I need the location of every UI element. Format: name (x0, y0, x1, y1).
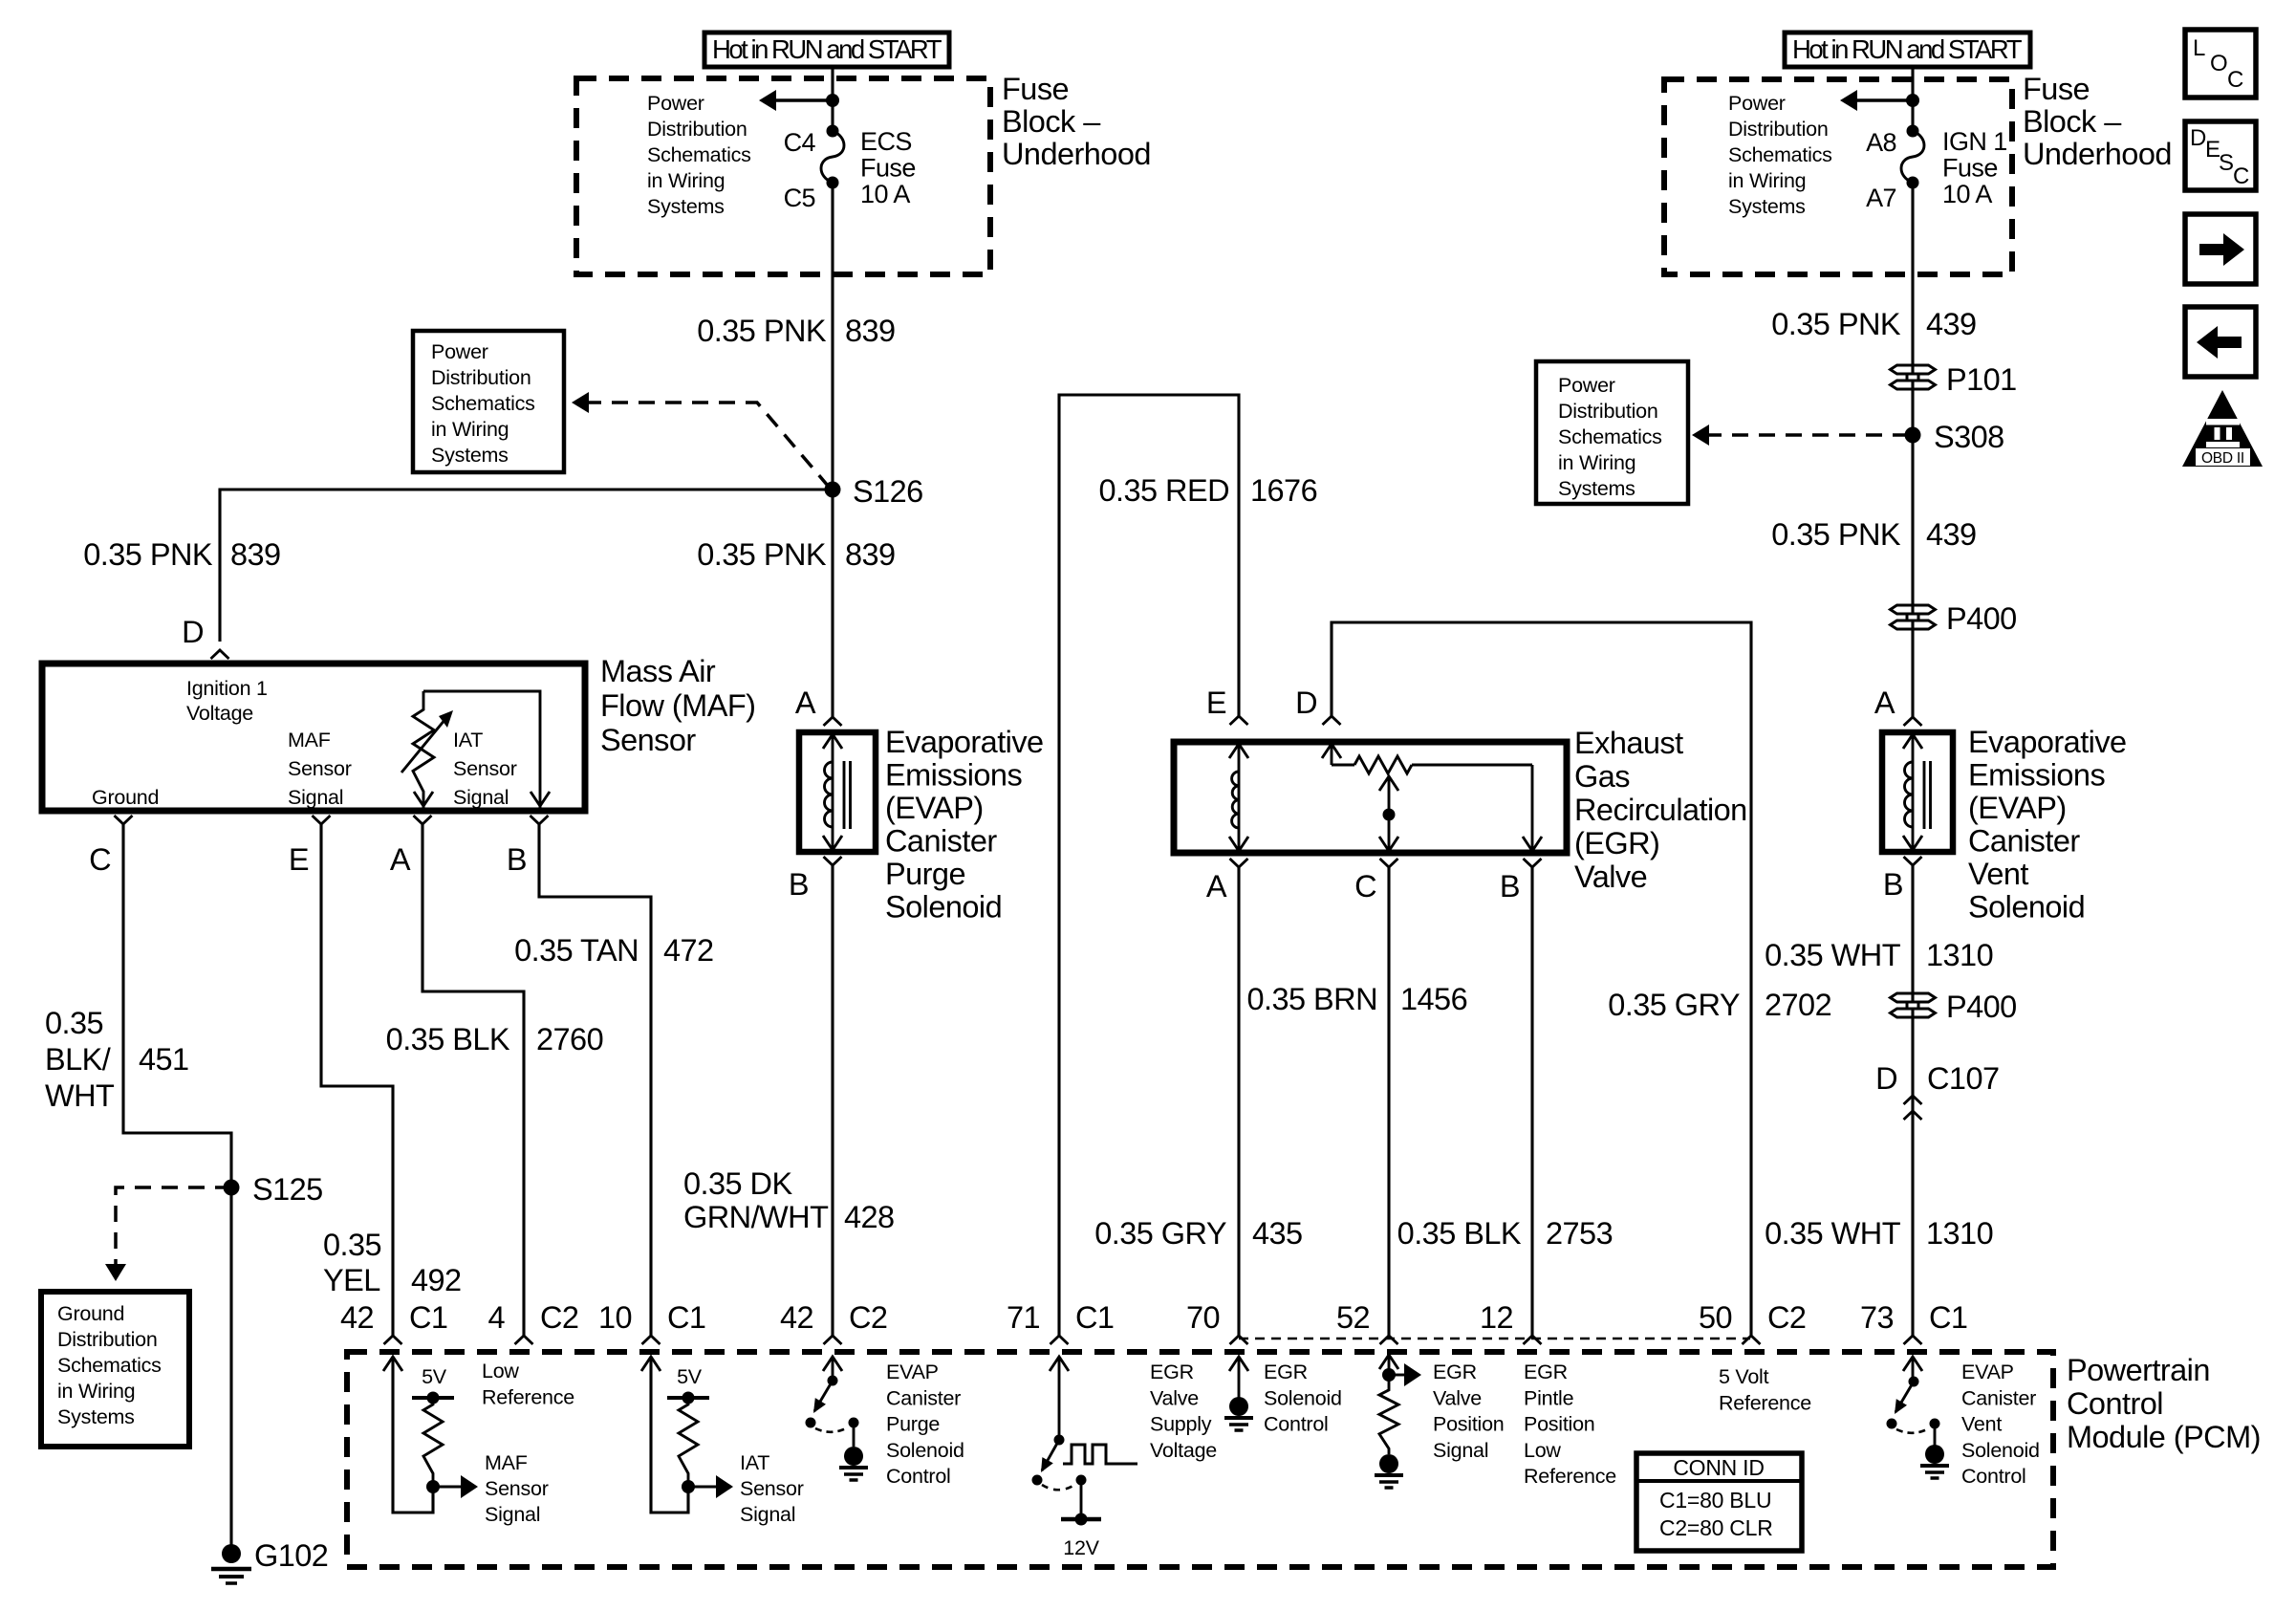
PCM pin 10 C1 (642, 1336, 661, 1344)
svg-text:Schematics: Schematics (647, 143, 751, 166)
MAF pin A connector (414, 816, 432, 824)
svg-text:5 Volt: 5 Volt (1719, 1365, 1769, 1388)
svg-text:Schematics: Schematics (57, 1354, 162, 1377)
EVAP vent solenoid pin B connector (1904, 857, 1922, 865)
svg-text:C1: C1 (1075, 1300, 1114, 1335)
svg-text:1310: 1310 (1926, 938, 1993, 972)
svg-text:Recirculation: Recirculation (1574, 793, 1747, 827)
wire: 0.35 GRY 435 from EGR pin A to PCM pin 70 (1237, 867, 1240, 1336)
PCM pin 42 C2 (824, 1336, 842, 1344)
svg-text:Power: Power (647, 92, 704, 115)
svg-text:in Wiring: in Wiring (1558, 451, 1635, 474)
svg-text:492: 492 (411, 1263, 462, 1297)
PCM pin 50 C2 (1743, 1336, 1761, 1344)
in-line connector D C107 (1904, 1096, 1922, 1104)
PCM square wave symbol (1063, 1445, 1137, 1464)
svg-text:Distribution: Distribution (1728, 118, 1829, 141)
wire: 0.35 TAN 472 from MAF pin B to PCM pin 10 C1 (539, 824, 651, 1336)
svg-text:2760: 2760 (536, 1022, 603, 1056)
svg-text:WHT: WHT (45, 1078, 115, 1113)
svg-text:Control: Control (886, 1465, 951, 1488)
svg-text:73: 73 (1860, 1300, 1894, 1335)
PCM connector grouping dashed line (1239, 1338, 1750, 1340)
svg-text:12: 12 (1480, 1300, 1513, 1335)
EGR pin D connector (1323, 716, 1341, 725)
svg-text:E: E (1206, 686, 1226, 720)
svg-text:Schematics: Schematics (1558, 425, 1662, 448)
svg-text:451: 451 (139, 1042, 189, 1077)
svg-text:439: 439 (1926, 517, 1977, 552)
svg-text:C2=80 CLR: C2=80 CLR (1659, 1515, 1773, 1540)
PCM pin 70 (1230, 1336, 1248, 1344)
svg-text:0.35 BLK: 0.35 BLK (386, 1022, 510, 1056)
icon: forward arrow box (2185, 214, 2256, 284)
Evaporative Emissions (EVAP) Canister Purge Solenoid box (799, 732, 876, 852)
svg-text:Underhood: Underhood (1002, 137, 1151, 171)
svg-text:D: D (1295, 686, 1317, 720)
svg-text:BLK/: BLK/ (45, 1042, 112, 1077)
svg-text:Supply: Supply (1150, 1413, 1212, 1436)
svg-text:5V: 5V (677, 1365, 703, 1388)
svg-text:Emissions: Emissions (1968, 758, 2105, 793)
svg-text:A: A (795, 686, 816, 720)
PCM pin 12 (1524, 1336, 1542, 1344)
PCM 12V source (1076, 1475, 1087, 1486)
wire: 0.35 YEL 492 from MAF pin E to PCM pin 42 C1 (321, 824, 393, 1336)
svg-text:428: 428 (844, 1200, 895, 1234)
Exhaust Gas Recirculation (EGR) Valve box (1174, 742, 1567, 853)
svg-text:C: C (1354, 869, 1376, 903)
svg-text:EGR: EGR (1264, 1361, 1308, 1383)
svg-text:Systems: Systems (431, 444, 509, 467)
svg-text:Canister: Canister (1968, 824, 2080, 859)
svg-text:IAT: IAT (740, 1451, 769, 1474)
svg-text:Powertrain: Powertrain (2067, 1353, 2210, 1387)
reference box: Power Distribution Schematics in Wiring Systems (middle left) (413, 331, 564, 472)
svg-text:Solenoid: Solenoid (886, 1439, 964, 1462)
dashed arrow from S125 to ground distribution reference (116, 1187, 231, 1264)
svg-text:0.35: 0.35 (323, 1228, 381, 1262)
svg-text:(EVAP): (EVAP) (885, 791, 984, 825)
in-line connector P400 (lower) (1896, 1003, 1929, 1009)
svg-text:A7: A7 (1866, 184, 1896, 212)
svg-text:1676: 1676 (1250, 473, 1317, 508)
svg-text:2753: 2753 (1546, 1216, 1613, 1251)
svg-text:Signal: Signal (740, 1503, 795, 1526)
svg-text:in Wiring: in Wiring (647, 169, 725, 192)
svg-text:Pintle: Pintle (1524, 1386, 1573, 1409)
PCM pin 52 (1380, 1336, 1398, 1344)
svg-text:Mass Air: Mass Air (600, 654, 716, 688)
svg-text:4: 4 (487, 1300, 505, 1335)
svg-text:Solenoid: Solenoid (885, 890, 1002, 925)
svg-text:Sensor: Sensor (740, 1477, 804, 1500)
wire: 0.35 BLK/WHT 451 from MAF pin C to G102 (123, 824, 231, 1545)
svg-text:5V: 5V (422, 1365, 447, 1388)
svg-text:C1: C1 (1929, 1300, 1967, 1335)
svg-text:Position: Position (1433, 1413, 1505, 1436)
svg-text:472: 472 (663, 933, 714, 968)
svg-text:CONN ID: CONN ID (1673, 1455, 1764, 1480)
svg-text:C2: C2 (540, 1300, 578, 1335)
Powertrain Control Module (PCM) dashed box (347, 1352, 2053, 1567)
svg-text:Valve: Valve (1150, 1386, 1199, 1409)
PCM EGR solenoid control ground (1229, 1357, 1248, 1371)
svg-text:EGR: EGR (1433, 1361, 1477, 1383)
svg-text:C1: C1 (409, 1300, 447, 1335)
svg-text:S: S (2219, 150, 2234, 176)
CONN ID table (1636, 1453, 1802, 1551)
svg-text:YEL: YEL (323, 1263, 380, 1297)
svg-text:0.35 PNK: 0.35 PNK (83, 537, 213, 572)
PCM pin 4 C2 (515, 1336, 533, 1344)
svg-text:IGN 1: IGN 1 (1942, 127, 2007, 156)
svg-text:A8: A8 (1866, 128, 1896, 157)
svg-text:Schematics: Schematics (431, 392, 535, 415)
svg-text:Sensor: Sensor (453, 757, 517, 780)
svg-text:0.35 RED: 0.35 RED (1098, 473, 1229, 508)
label: Hot in RUN and START (right) (1785, 33, 2030, 67)
svg-text:Distribution: Distribution (1558, 400, 1658, 423)
svg-text:0.35 PNK: 0.35 PNK (697, 314, 827, 348)
svg-text:2702: 2702 (1765, 988, 1831, 1022)
svg-text:B: B (1500, 869, 1520, 903)
svg-text:Module (PCM): Module (PCM) (2067, 1420, 2261, 1454)
svg-text:Hot in RUN and START: Hot in RUN and START (712, 34, 942, 64)
svg-text:0.35 PNK: 0.35 PNK (1771, 307, 1901, 341)
svg-text:D: D (2190, 125, 2206, 151)
svg-text:C2: C2 (849, 1300, 887, 1335)
svg-text:Sensor: Sensor (600, 723, 696, 757)
svg-text:10: 10 (598, 1300, 632, 1335)
svg-text:Solenoid: Solenoid (1264, 1386, 1342, 1409)
splice S308 (1905, 427, 1921, 444)
EGR pin C connector (1380, 859, 1398, 867)
svg-text:50: 50 (1699, 1300, 1732, 1335)
svg-text:GRN/WHT: GRN/WHT (683, 1200, 829, 1234)
svg-text:Emissions: Emissions (885, 758, 1022, 793)
EGR solenoid coil (1238, 742, 1241, 853)
svg-text:Gas: Gas (1574, 759, 1630, 794)
wire: 0.35 DK GRN/WHT 428 from purge solenoid to PCM pin 42 C2 (831, 865, 834, 1336)
svg-text:Reference: Reference (1719, 1391, 1811, 1414)
svg-text:Solenoid: Solenoid (1968, 890, 2085, 925)
svg-text:C5: C5 (784, 184, 815, 212)
svg-text:A: A (1874, 686, 1895, 720)
svg-text:EVAP: EVAP (886, 1361, 939, 1383)
svg-text:Distribution: Distribution (431, 366, 531, 389)
EVAP purge solenoid pin B connector (824, 857, 842, 865)
EVAP purge solenoid pin A connector (824, 717, 842, 726)
svg-text:EGR: EGR (1150, 1361, 1194, 1383)
MAF pin E connector (313, 816, 331, 824)
dashed arrow from S308 to power distribution reference (right) (1705, 433, 1908, 437)
svg-text:C: C (2227, 67, 2243, 93)
svg-text:Signal: Signal (453, 786, 509, 809)
icon: DESC box (2185, 121, 2256, 190)
svg-text:Fuse: Fuse (1002, 72, 1069, 106)
PCM EVAP canister vent solenoid control driver (1903, 1357, 1922, 1371)
svg-text:Power: Power (431, 340, 488, 363)
ground G102 (222, 1544, 241, 1563)
svg-text:Low: Low (1524, 1439, 1561, 1462)
svg-text:Solenoid: Solenoid (1961, 1439, 2040, 1462)
svg-text:71: 71 (1007, 1300, 1040, 1335)
fuse block - underhood (right) dashed enclosure (1664, 79, 2012, 274)
svg-text:MAF: MAF (288, 729, 331, 751)
svg-text:0.35 WHT: 0.35 WHT (1765, 1216, 1901, 1251)
svg-text:Signal: Signal (1433, 1439, 1488, 1462)
svg-text:435: 435 (1252, 1216, 1303, 1251)
svg-text:S125: S125 (252, 1172, 323, 1207)
svg-text:IAT: IAT (453, 729, 483, 751)
svg-text:E: E (289, 842, 309, 877)
svg-text:Block –: Block – (2023, 104, 2122, 139)
svg-text:G102: G102 (254, 1538, 328, 1573)
svg-text:Fuse: Fuse (2023, 72, 2090, 106)
svg-text:D: D (182, 615, 204, 649)
MAF pin B connector (531, 816, 549, 824)
svg-text:Power: Power (1728, 92, 1786, 115)
reference box: Power Distribution Schematics in Wiring Systems (middle right) (1536, 361, 1688, 504)
svg-text:Signal: Signal (485, 1503, 540, 1526)
svg-text:10 A: 10 A (1942, 180, 1992, 208)
svg-text:1456: 1456 (1400, 982, 1467, 1016)
svg-text:Hot in RUN and START: Hot in RUN and START (1792, 34, 2023, 64)
svg-text:Low: Low (482, 1360, 519, 1382)
svg-text:Signal: Signal (288, 786, 343, 809)
wire: 0.35 BLK 2760 from MAF pin A to PCM pin 4 C2 (422, 824, 524, 1336)
EGR pin A connector (1230, 859, 1248, 867)
svg-text:42: 42 (340, 1300, 374, 1335)
fuse block - underhood (left) dashed enclosure (576, 78, 990, 274)
svg-text:Systems: Systems (1728, 195, 1806, 218)
svg-text:Position: Position (1524, 1413, 1595, 1436)
svg-text:Systems: Systems (57, 1405, 135, 1428)
svg-text:B: B (789, 867, 809, 902)
svg-text:Ground: Ground (92, 786, 159, 809)
EGR pin B connector (1524, 859, 1542, 867)
svg-text:EVAP: EVAP (1961, 1361, 2014, 1383)
svg-text:Evaporative: Evaporative (885, 725, 1044, 759)
wire: 0.35 RED 1676 from PCM pin 71 C1 to EGR pin E (1059, 395, 1239, 1336)
svg-text:(EGR): (EGR) (1574, 826, 1659, 860)
IAT thermistor inside MAF sensor (423, 691, 540, 808)
svg-text:10 A: 10 A (860, 180, 910, 208)
svg-text:Systems: Systems (647, 195, 725, 218)
svg-text:Canister: Canister (886, 1386, 961, 1409)
svg-text:Evaporative: Evaporative (1968, 725, 2127, 759)
svg-text:0.35 DK: 0.35 DK (683, 1166, 792, 1201)
in-line connector P400 (upper) (1896, 615, 1929, 620)
svg-text:Canister: Canister (1961, 1386, 2036, 1409)
svg-text:Vent: Vent (1968, 857, 2028, 891)
svg-text:S126: S126 (853, 474, 923, 509)
svg-text:839: 839 (230, 537, 281, 572)
EVAP vent solenoid coil (1912, 732, 1915, 852)
svg-text:0.35 TAN: 0.35 TAN (514, 933, 639, 968)
svg-text:C2: C2 (1767, 1300, 1806, 1335)
svg-text:Control: Control (1961, 1465, 2026, 1488)
svg-text:in Wiring: in Wiring (431, 418, 509, 441)
svg-text:Control: Control (2067, 1386, 2163, 1421)
wire: 0.35 PNK 839 branch to MAF sensor pin D (220, 490, 831, 642)
svg-text:0.35 GRY: 0.35 GRY (1608, 988, 1740, 1022)
svg-text:Ignition 1: Ignition 1 (186, 677, 268, 700)
EGR potentiometer wiper (1388, 776, 1391, 853)
wire: 0.35 PNK 439 from IGN 1 fuse to EVAP vent solenoid pin A (1911, 67, 1914, 128)
PCM EGR valve supply voltage driver (1050, 1357, 1069, 1371)
MAF sensor pin D connector (211, 650, 229, 659)
svg-text:12V: 12V (1063, 1536, 1099, 1559)
MAF pin C connector (115, 816, 133, 824)
svg-text:Purge: Purge (885, 857, 965, 891)
svg-text:Fuse: Fuse (860, 154, 916, 183)
svg-text:Sensor: Sensor (485, 1477, 549, 1500)
arrow into MAF box at pin B (531, 792, 550, 806)
svg-text:S308: S308 (1934, 420, 2004, 454)
svg-text:70: 70 (1186, 1300, 1220, 1335)
in-line connector P101 (1896, 375, 1929, 381)
PCM EGR valve position signal input (1379, 1355, 1398, 1369)
svg-text:in Wiring: in Wiring (57, 1380, 135, 1403)
svg-text:Voltage: Voltage (1150, 1439, 1217, 1462)
wire: 0.35 BLK 2753 from EGR pin B to PCM pin 12 (1530, 867, 1533, 1336)
Evaporative Emissions (EVAP) Canister Vent Solenoid box (1882, 732, 1953, 852)
svg-text:0.35 PNK: 0.35 PNK (1771, 517, 1901, 552)
dashed arrow from S126 to power distribution reference (left) (585, 403, 828, 486)
EVAP vent solenoid pin A connector (1904, 717, 1922, 726)
splice S125 (224, 1180, 240, 1196)
svg-text:Purge: Purge (886, 1413, 940, 1436)
svg-text:D: D (1875, 1061, 1897, 1096)
reference box: Ground Distribution Schematics in Wiring Systems (41, 1292, 189, 1447)
svg-text:(EVAP): (EVAP) (1968, 791, 2067, 825)
fuse ECS 10 A (C4-C5) (827, 125, 839, 138)
wire: 0.35 GRY 2702 from EGR pin D to PCM pin 50 C2 (1332, 622, 1751, 1336)
svg-text:Power: Power (1558, 374, 1615, 397)
svg-text:C: C (2233, 163, 2249, 189)
svg-text:Control: Control (1264, 1413, 1329, 1436)
svg-text:P101: P101 (1946, 362, 2017, 397)
svg-text:MAF: MAF (485, 1451, 528, 1474)
svg-text:A: A (1206, 869, 1227, 903)
svg-text:Valve: Valve (1574, 860, 1647, 894)
svg-text:L: L (2193, 35, 2205, 61)
svg-text:0.35 WHT: 0.35 WHT (1765, 938, 1901, 972)
svg-text:Vent: Vent (1961, 1413, 2002, 1436)
svg-text:Schematics: Schematics (1728, 143, 1832, 166)
svg-text:Exhaust: Exhaust (1574, 726, 1683, 760)
svg-text:EGR: EGR (1524, 1361, 1568, 1383)
svg-text:0.35 GRY: 0.35 GRY (1094, 1216, 1226, 1251)
svg-text:42: 42 (780, 1300, 813, 1335)
icon: back arrow box (2185, 307, 2256, 377)
svg-text:B: B (507, 842, 527, 877)
svg-text:Voltage: Voltage (186, 702, 253, 725)
fuse IGN 1 10 A (A8-A7) (1907, 125, 1919, 138)
svg-text:0.35 BRN: 0.35 BRN (1246, 982, 1377, 1016)
PCM pin 71 C1 (1051, 1336, 1069, 1344)
svg-text:C1: C1 (667, 1300, 705, 1335)
svg-text:Fuse: Fuse (1942, 154, 1998, 183)
PCM pin 42 C1 (384, 1336, 402, 1344)
icon: LOC box (2185, 30, 2256, 98)
svg-text:Valve: Valve (1433, 1386, 1482, 1409)
svg-text:in Wiring: in Wiring (1728, 169, 1806, 192)
svg-text:0.35 BLK: 0.35 BLK (1397, 1216, 1522, 1251)
svg-text:Reference: Reference (482, 1385, 574, 1408)
svg-text:Canister: Canister (885, 824, 997, 859)
svg-text:1310: 1310 (1926, 1216, 1993, 1251)
svg-text:Distribution: Distribution (647, 118, 747, 141)
svg-text:P400: P400 (1946, 990, 2017, 1024)
svg-text:839: 839 (845, 314, 896, 348)
svg-text:Underhood: Underhood (2023, 137, 2172, 171)
arrow into MAF box at pin A (414, 792, 433, 806)
icon: OBD II triangle (2182, 390, 2263, 467)
svg-text:ECS: ECS (860, 127, 912, 156)
svg-text:Distribution: Distribution (57, 1328, 158, 1351)
svg-text:O: O (2210, 51, 2227, 76)
svg-text:Reference: Reference (1524, 1465, 1616, 1488)
svg-text:B: B (1883, 867, 1903, 902)
svg-text:C1=80 BLU: C1=80 BLU (1659, 1488, 1771, 1513)
svg-text:OBD II: OBD II (2201, 450, 2244, 467)
arrow to power distribution (left fuse block) (776, 98, 833, 102)
wire: 0.35 PNK 839 from ECS fuse to EVAP purge solenoid pin A (831, 67, 834, 128)
label: Hot in RUN and START (left) (704, 33, 949, 67)
EVAP purge solenoid coil (832, 732, 834, 852)
wire: 0.35 WHT 1310 from vent solenoid to PCM pin 73 C1 (1911, 865, 1914, 1336)
svg-text:C4: C4 (784, 128, 816, 157)
svg-text:P400: P400 (1946, 601, 2017, 636)
EGR pintle position potentiometer (1331, 742, 1333, 765)
svg-text:C107: C107 (1927, 1061, 2000, 1096)
EGR pin E connector (1230, 716, 1248, 725)
svg-text:52: 52 (1336, 1300, 1370, 1335)
PCM EVAP canister purge solenoid control driver (823, 1357, 842, 1371)
svg-text:0.35 PNK: 0.35 PNK (697, 537, 827, 572)
svg-text:839: 839 (845, 537, 896, 572)
PCM MAF sensor signal input circuit (383, 1357, 402, 1371)
svg-text:Sensor: Sensor (288, 757, 352, 780)
svg-text:0.35: 0.35 (45, 1006, 103, 1040)
svg-text:Flow (MAF): Flow (MAF) (600, 688, 755, 723)
PCM IAT sensor signal input circuit (641, 1357, 661, 1371)
arrow to power distribution (right fuse block) (1857, 98, 1913, 102)
svg-text:A: A (390, 842, 411, 877)
svg-text:Systems: Systems (1558, 477, 1635, 500)
svg-text:Block –: Block – (1002, 104, 1101, 139)
svg-text:Ground: Ground (57, 1302, 124, 1325)
svg-text:439: 439 (1926, 307, 1977, 341)
splice S126 (825, 482, 841, 498)
Mass Air Flow (MAF) Sensor box (42, 664, 585, 811)
PCM pin 73 C1 (1904, 1336, 1922, 1344)
wire: 0.35 BRN 1456 from EGR pin C to PCM pin 52 (1387, 867, 1390, 1336)
svg-text:C: C (89, 842, 111, 877)
